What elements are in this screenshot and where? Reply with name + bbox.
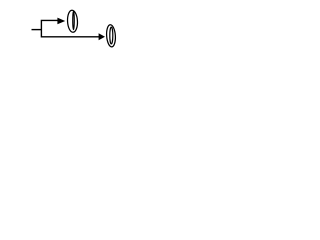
node B: outer ellipse [106,24,116,47]
arrowhead into node A [57,18,65,25]
node A: outer ellipse [67,10,78,33]
arrowhead into node B [99,33,105,40]
wire: fork vertical + upper branch to node A [41,20,58,37]
wire: input stub [32,29,42,31]
node A: inner/offset ellipse [73,11,75,29]
node B: inner/offset ellipse [110,27,113,44]
circuit-style fork diagram: one input line splitting into two arrowed branches, each ending at an oval node [0,0,150,60]
wire: lower branch to node B [41,36,99,38]
